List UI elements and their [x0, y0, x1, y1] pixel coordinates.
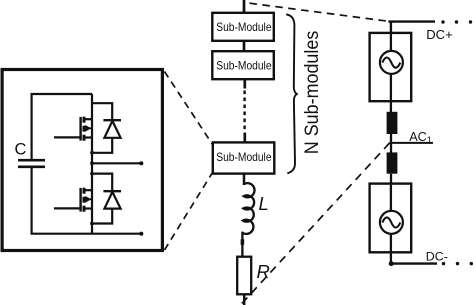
- AC source box lower: [370, 184, 412, 253]
- cathode bar: [103, 119, 121, 121]
- diode D1 (upper, antiparallel): [92, 103, 121, 153]
- gate bar: [79, 117, 81, 141]
- capacitor C plates: [18, 160, 45, 167]
- wire trunk: [91, 94, 93, 234]
- dashed line (AC1 to R arm): [241, 143, 390, 305]
- wire stub above box 3: [243, 133, 246, 143]
- wire top rail: [31, 93, 93, 95]
- channel segments: [83, 188, 86, 212]
- branch wire: [92, 174, 112, 191]
- wire into circle: [390, 33, 392, 52]
- sine wave: [382, 217, 400, 227]
- dashed callout line top: [165, 72, 213, 145]
- transistor Q2 (lower IGBT): [54, 188, 92, 212]
- choke block 2: [387, 152, 398, 173]
- drain stub: [84, 118, 92, 120]
- terminal dot mid: [139, 161, 143, 165]
- diode D2 (lower, antiparallel): [92, 174, 121, 224]
- sine wave: [382, 58, 400, 68]
- AC source circle upper: [380, 51, 403, 74]
- triangle: [104, 121, 120, 138]
- wires into circle: [390, 184, 392, 212]
- wire arm top: [243, 0, 246, 13]
- svg-text:Sub-Module: Sub-Module: [216, 151, 271, 164]
- DC- rail: [391, 262, 437, 264]
- wire stub below box 2: [243, 79, 246, 88]
- body arrow: [85, 196, 91, 203]
- wire below box 3: [243, 174, 246, 185]
- svg-text:L: L: [259, 193, 269, 214]
- mid stub: [84, 198, 92, 200]
- body arrow: [85, 125, 91, 132]
- wire: [243, 41, 246, 51]
- choke block 1: [387, 112, 398, 134]
- wire DC+ to source box: [390, 21, 392, 34]
- wire below resistor: [243, 294, 246, 305]
- DC- junction dot: [389, 261, 394, 266]
- dashed callout line bottom: [165, 173, 213, 251]
- capacitor C1 top lead wire: [31, 94, 33, 159]
- svg-text:R: R: [257, 261, 270, 282]
- sub-module box 1: [212, 13, 273, 41]
- AC1 terminal line: [389, 142, 433, 144]
- capacitor C bottom lead wire: [31, 168, 33, 234]
- resistor R: [237, 257, 251, 295]
- junction dots on trunk: [90, 151, 94, 155]
- branch wire: [92, 103, 112, 120]
- drain stub: [84, 189, 92, 191]
- sub-module box 3: [213, 142, 274, 173]
- svg-text:Sub-Module: Sub-Module: [216, 21, 271, 34]
- wire: [390, 134, 392, 153]
- dotted continuation wire: [243, 91, 245, 134]
- channel segments: [83, 117, 86, 141]
- wire inductor to resistor: [241, 232, 243, 257]
- detail box (zoom-in of one sub-module): [2, 70, 162, 251]
- svg-text:Sub-Module: Sub-Module: [216, 59, 271, 72]
- brace (N sub-modules): [286, 14, 297, 173]
- wire bottom rail: [31, 233, 142, 235]
- AC source box upper: [370, 33, 412, 101]
- DC+ dotted continuation: [441, 20, 472, 23]
- svg-text:DC+: DC+: [426, 27, 452, 42]
- svg-text:C: C: [15, 141, 27, 159]
- gate lead: [54, 207, 81, 209]
- solder blob on wire: [241, 239, 245, 245]
- triangle: [104, 192, 120, 209]
- DC- dotted continuation: [442, 262, 473, 265]
- cathode bar: [103, 190, 121, 192]
- sub-module box 2: [212, 51, 273, 79]
- source stub: [84, 207, 92, 209]
- terminal dot bottom: [139, 232, 143, 236]
- wire to lower source: [390, 174, 392, 184]
- gate bar: [79, 188, 81, 212]
- AC source circle lower: [380, 211, 403, 234]
- svg-text:DC-: DC-: [426, 250, 448, 264]
- mid stub: [84, 127, 92, 129]
- gate lead: [54, 136, 81, 138]
- svg-text:AC1: AC1: [409, 130, 432, 145]
- node: mid output wire: [92, 162, 142, 164]
- inductor L coil: [243, 183, 255, 234]
- dashed line top (arm to DC+): [250, 3, 389, 21]
- transistor Q1 (upper IGBT): [54, 117, 92, 141]
- source stub: [84, 136, 92, 138]
- DC+ rail: [388, 20, 435, 22]
- svg-text:N Sub-modules: N Sub-modules: [302, 31, 323, 155]
